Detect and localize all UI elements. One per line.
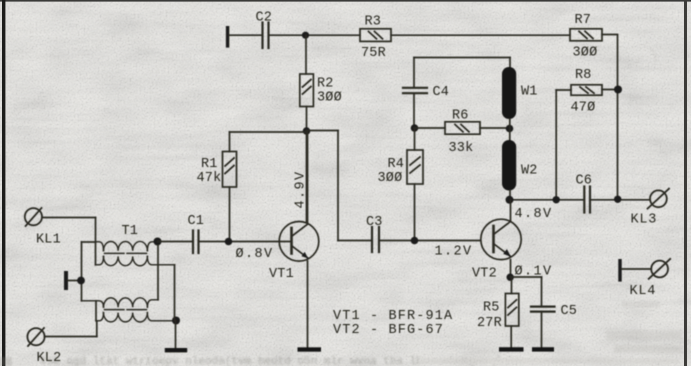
svg-text:C2: C2 (256, 11, 273, 26)
svg-text:C5: C5 (561, 304, 578, 319)
svg-text:VT1 - BFR-91A: VT1 - BFR-91A (333, 309, 453, 324)
svg-text:KL1: KL1 (36, 233, 61, 248)
svg-text:R2: R2 (317, 77, 334, 92)
svg-text:47k: 47k (197, 171, 222, 186)
svg-text:C6: C6 (576, 174, 593, 189)
svg-text:VT2: VT2 (472, 267, 497, 282)
svg-text:W1: W1 (521, 85, 538, 100)
svg-text:C1: C1 (188, 214, 205, 229)
svg-text:T1: T1 (122, 224, 139, 239)
svg-text:KL2: KL2 (37, 351, 62, 366)
svg-text:KL4: KL4 (630, 284, 657, 299)
svg-text:Ø.8V: Ø.8V (236, 247, 274, 262)
svg-text:W2: W2 (521, 164, 538, 179)
svg-text:R7: R7 (575, 13, 592, 28)
svg-text:Ø.1V: Ø.1V (515, 265, 553, 280)
svg-text:3ØØ: 3ØØ (573, 46, 598, 61)
svg-text:R3: R3 (365, 15, 382, 30)
svg-text:33k: 33k (449, 141, 474, 156)
svg-text:R1: R1 (201, 157, 218, 172)
svg-text:4.8V: 4.8V (515, 207, 553, 222)
svg-text:4.9V: 4.9V (294, 170, 309, 208)
svg-text:R8: R8 (575, 68, 592, 83)
svg-text:VT1: VT1 (269, 267, 294, 282)
svg-text:KL3: KL3 (631, 213, 658, 228)
svg-text:C4: C4 (433, 85, 450, 100)
svg-text:VT2 - BFG-67: VT2 - BFG-67 (333, 323, 444, 338)
svg-text:75R: 75R (361, 46, 386, 61)
svg-text:3ØØ: 3ØØ (378, 171, 403, 186)
svg-text:3ØØ: 3ØØ (317, 91, 342, 106)
svg-text:R6: R6 (452, 109, 469, 124)
svg-text:C3: C3 (366, 215, 383, 230)
svg-text:R4: R4 (388, 157, 405, 172)
svg-text:1.2V: 1.2V (435, 245, 473, 260)
svg-text:R5: R5 (483, 301, 500, 316)
svg-text:27R: 27R (477, 316, 502, 331)
svg-text:47Ø: 47Ø (571, 101, 596, 116)
